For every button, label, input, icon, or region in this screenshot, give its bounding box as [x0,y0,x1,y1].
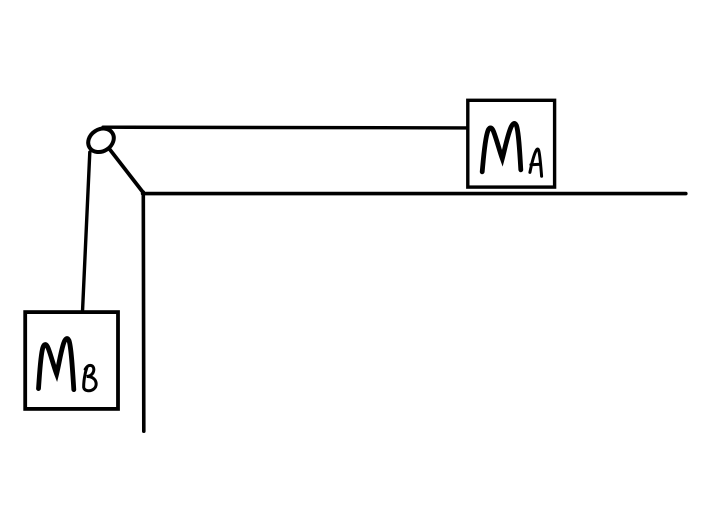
label M_B : subscript B [84,365,96,390]
block M_B [25,312,118,409]
string from pulley to block M_A [103,125,467,129]
label M_A : letter M [482,123,521,171]
block M_A [468,100,555,187]
table surface [143,192,686,196]
label M_B : letter M [39,339,74,390]
string from pulley to block M_B [83,152,90,311]
pulley bracket (pulley to table corner) [108,147,144,193]
pulley [84,124,119,157]
table leg (vertical edge) [142,192,146,431]
label M_A : subscript A [530,149,542,176]
